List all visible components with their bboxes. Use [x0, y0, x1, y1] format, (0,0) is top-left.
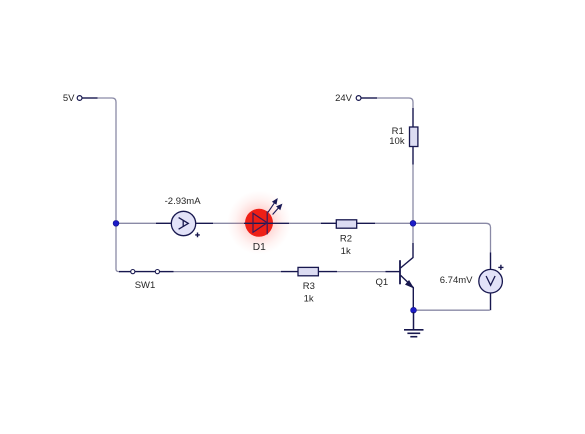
switch SW1 (closed): [119, 270, 174, 291]
svg-text:24V: 24V: [335, 93, 353, 104]
R1 top lead: [412, 108, 414, 127]
Q1 emitter lead: [401, 275, 414, 310]
R3 right lead: [319, 271, 338, 273]
voltmeter bottom lead: [490, 293, 492, 310]
R3 left lead: [281, 271, 298, 273]
svg-text:1k: 1k: [341, 246, 351, 257]
ammeter right lead: [196, 222, 213, 224]
wire SW1 to R3: [174, 271, 282, 273]
ammeter body circle: [171, 211, 195, 235]
R2 left lead: [321, 222, 336, 224]
wire R2 to right junction: [375, 222, 413, 224]
node left junction dot: [113, 220, 119, 226]
svg-text:Q1: Q1: [376, 277, 389, 288]
LED emission arrow 2: [273, 208, 279, 215]
D1 cathode bar: [266, 211, 268, 234]
ammeter arrow symbol: [179, 218, 189, 230]
svg-text:R2: R2: [340, 234, 352, 245]
resistor R1 10k (vertical): [389, 108, 418, 165]
pin circle: [356, 96, 361, 101]
ground: [404, 312, 424, 337]
svg-text:SW1: SW1: [135, 280, 156, 291]
Q1 base bar: [399, 260, 401, 284]
svg-text:6.74mV: 6.74mV: [440, 275, 473, 286]
SW1 right lead: [160, 271, 174, 273]
SW1 left lead: [119, 271, 131, 273]
wire 5V rail: right then down to left junction: [98, 98, 117, 220]
R2 right lead: [357, 222, 375, 224]
pin lead: [82, 97, 98, 99]
SW1 right contact circle: [155, 270, 159, 274]
svg-text:1k: 1k: [304, 294, 314, 305]
ground bar 3: [410, 336, 417, 338]
svg-text:5V: 5V: [63, 93, 75, 104]
wire ammeter to LED: [213, 222, 244, 224]
wire 24V rail: right then down to R1: [377, 98, 413, 108]
terminal pin 24V: [335, 93, 377, 104]
resistor R2 1k (horizontal): [321, 220, 375, 257]
voltmeter V symbol: [486, 276, 495, 285]
voltmeter plus polarity mark: [498, 265, 503, 270]
R3 body: [298, 267, 318, 275]
Q1 emitter arrowhead: [406, 281, 414, 289]
terminal pin 5V: [63, 93, 98, 104]
svg-text:R3: R3: [303, 281, 315, 292]
ground bar 2: [407, 332, 420, 334]
SW1 left contact circle: [131, 270, 135, 274]
R1 bottom lead: [412, 146, 414, 165]
voltmeter probe 6.74mV: [440, 253, 504, 311]
D1 lead through: [244, 222, 289, 224]
wire right junction down to Q1 collector: [412, 223, 414, 243]
svg-text:-2.93mA: -2.93mA: [165, 196, 202, 207]
ammeter left lead: [156, 222, 171, 224]
R1 body: [410, 127, 418, 147]
transistor Q1 NPN: [376, 243, 414, 310]
ground bar 1: [404, 329, 424, 331]
wire right junction to voltmeter top: [416, 223, 491, 252]
pin lead: [361, 97, 377, 99]
node emitter junction dot: [411, 307, 417, 313]
voltmeter top lead: [490, 253, 492, 270]
wire left junction to ammeter: [116, 222, 156, 224]
ground stem: [413, 312, 415, 330]
wire R1 bottom to right junction: [412, 165, 414, 224]
wire voltmeter bottom to emitter junction: [417, 309, 490, 311]
D1 glow halo: [227, 191, 291, 255]
LED emission arrow 1: [268, 203, 274, 212]
D1 lit body: [245, 209, 273, 237]
Q1 base lead: [386, 271, 401, 273]
wire R3 to Q1 base: [337, 271, 386, 273]
ammeter probe (current probe): [156, 196, 213, 237]
D1 anode triangle: [253, 213, 267, 232]
svg-text:R1: R1: [392, 126, 404, 137]
wire LED to R2: [289, 222, 321, 224]
voltmeter body circle: [479, 269, 503, 293]
ammeter plus polarity mark: [195, 233, 200, 238]
svg-text:D1: D1: [253, 242, 266, 253]
wire left junction down to SW1 row: [116, 223, 120, 271]
R2 body: [336, 220, 356, 228]
LED D1 (glowing): [227, 191, 291, 255]
node right junction dot: [410, 220, 416, 226]
Q1 collector lead: [401, 243, 414, 268]
svg-text:10k: 10k: [389, 136, 405, 147]
resistor R3 1k (horizontal): [281, 267, 337, 304]
pin circle: [77, 96, 82, 101]
SW1 closed blade: [135, 271, 155, 273]
